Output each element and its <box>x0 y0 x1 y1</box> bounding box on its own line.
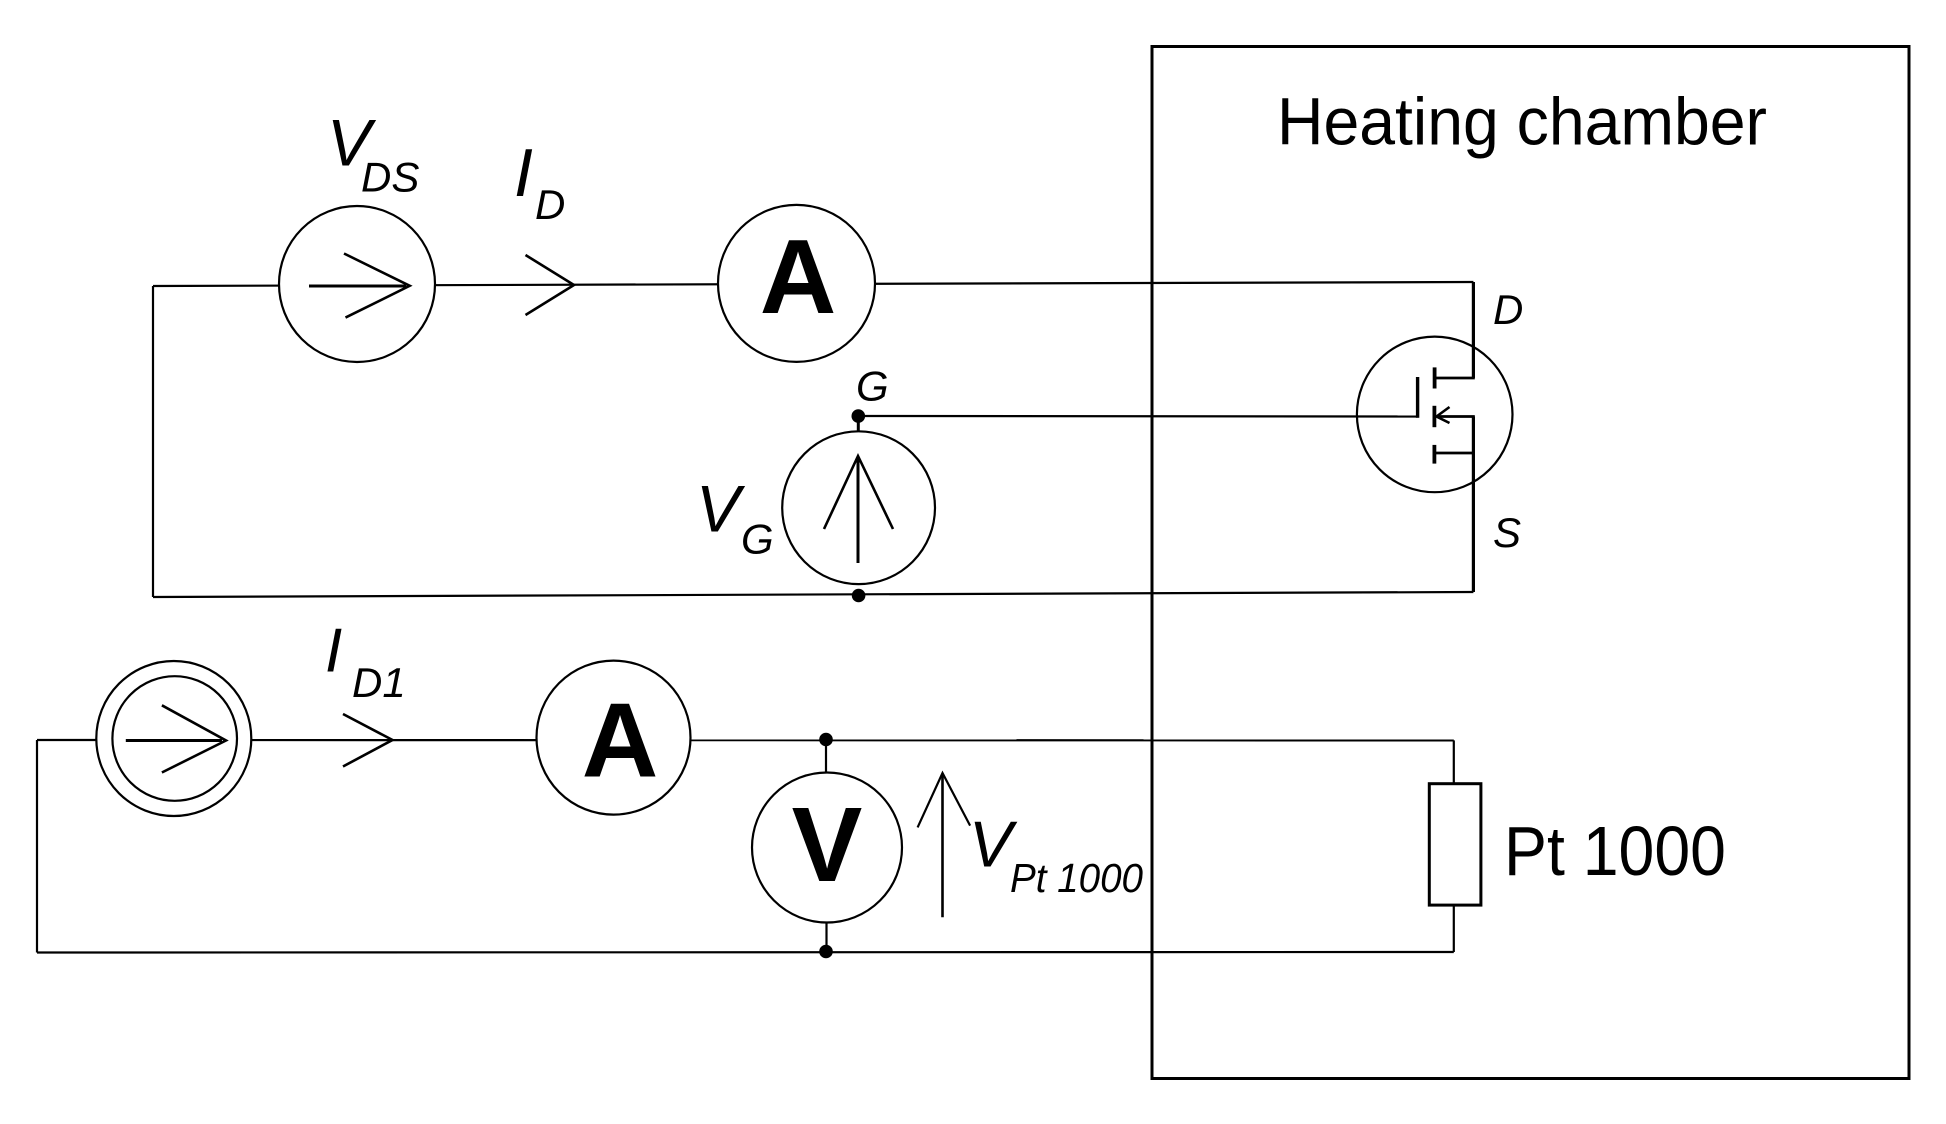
wire gate horizontal <box>858 415 1417 418</box>
arrow V_Pt1000 <box>941 775 944 917</box>
node at V_G bottom <box>852 589 866 603</box>
node G dot <box>852 409 866 423</box>
current source I_D1 arrow <box>126 739 222 742</box>
wire Pt1000 right leg vertical <box>1453 740 1455 952</box>
resistor Pt 1000 <box>1429 784 1481 905</box>
svg-text:A: A <box>760 218 837 336</box>
heating chamber box <box>1152 47 1909 1079</box>
svg-text:S: S <box>1493 509 1521 556</box>
MOSFET Q1 circle <box>1357 337 1513 493</box>
wire drain vertical <box>1472 282 1475 378</box>
current source I_D1 inner circle <box>112 676 237 801</box>
svg-text:Pt 1000: Pt 1000 <box>1010 855 1143 901</box>
voltmeter V circle <box>752 773 902 923</box>
wire bottom loop bottom <box>37 951 1454 954</box>
svg-text:D1: D1 <box>352 659 406 706</box>
wire gate stub down <box>857 416 860 432</box>
MOSFET Q1 drain lead inside <box>1472 345 1475 378</box>
current source I_D1 outer circle <box>96 661 251 816</box>
voltage source V_G circle <box>782 431 935 584</box>
wire bottom loop left vertical <box>36 740 38 953</box>
current direction arrow I_D <box>526 255 575 315</box>
MOSFET Q1 source bar <box>1434 452 1474 455</box>
svg-text:D: D <box>1493 286 1523 333</box>
voltage source V_DS circle <box>279 206 435 362</box>
wire voltmeter stub bottom <box>825 923 827 952</box>
current direction arrow I_D1 <box>343 714 393 767</box>
svg-text:I: I <box>514 135 533 211</box>
MOSFET Q1 drain bar <box>1435 377 1475 380</box>
MOSFET Q1 body arrow <box>1438 415 1475 418</box>
node below voltmeter <box>819 945 833 959</box>
MOSFET Q1 channel segment top <box>1433 367 1437 388</box>
ammeter A (top) circle <box>718 205 875 362</box>
svg-text:A: A <box>582 682 659 800</box>
svg-text:G: G <box>741 516 774 563</box>
svg-text:Heating chamber: Heating chamber <box>1277 85 1767 160</box>
wire top loop left vertical <box>152 286 154 597</box>
wire top loop top <box>153 282 1473 286</box>
voltage source V_DS arrow <box>309 285 406 288</box>
svg-text:V: V <box>792 786 863 904</box>
svg-text:D: D <box>535 181 565 228</box>
voltage source V_G arrow <box>857 458 860 563</box>
svg-text:DS: DS <box>361 154 419 201</box>
svg-text:Pt 1000: Pt 1000 <box>1504 812 1726 890</box>
MOSFET Q1 gate bar <box>1416 377 1419 418</box>
node above voltmeter <box>819 733 833 747</box>
MOSFET Q1 channel segment bottom <box>1433 445 1437 464</box>
wire top loop bottom <box>153 592 1473 597</box>
MOSFET Q1 channel segment middle <box>1433 406 1437 427</box>
wire voltmeter stub top <box>825 740 827 774</box>
ammeter A (bottom) circle <box>537 661 691 815</box>
svg-text:I: I <box>325 617 342 686</box>
svg-text:V: V <box>696 472 746 546</box>
svg-text:G: G <box>856 363 889 410</box>
wire bottom loop top <box>37 739 1454 742</box>
wire source vertical <box>1472 417 1475 593</box>
